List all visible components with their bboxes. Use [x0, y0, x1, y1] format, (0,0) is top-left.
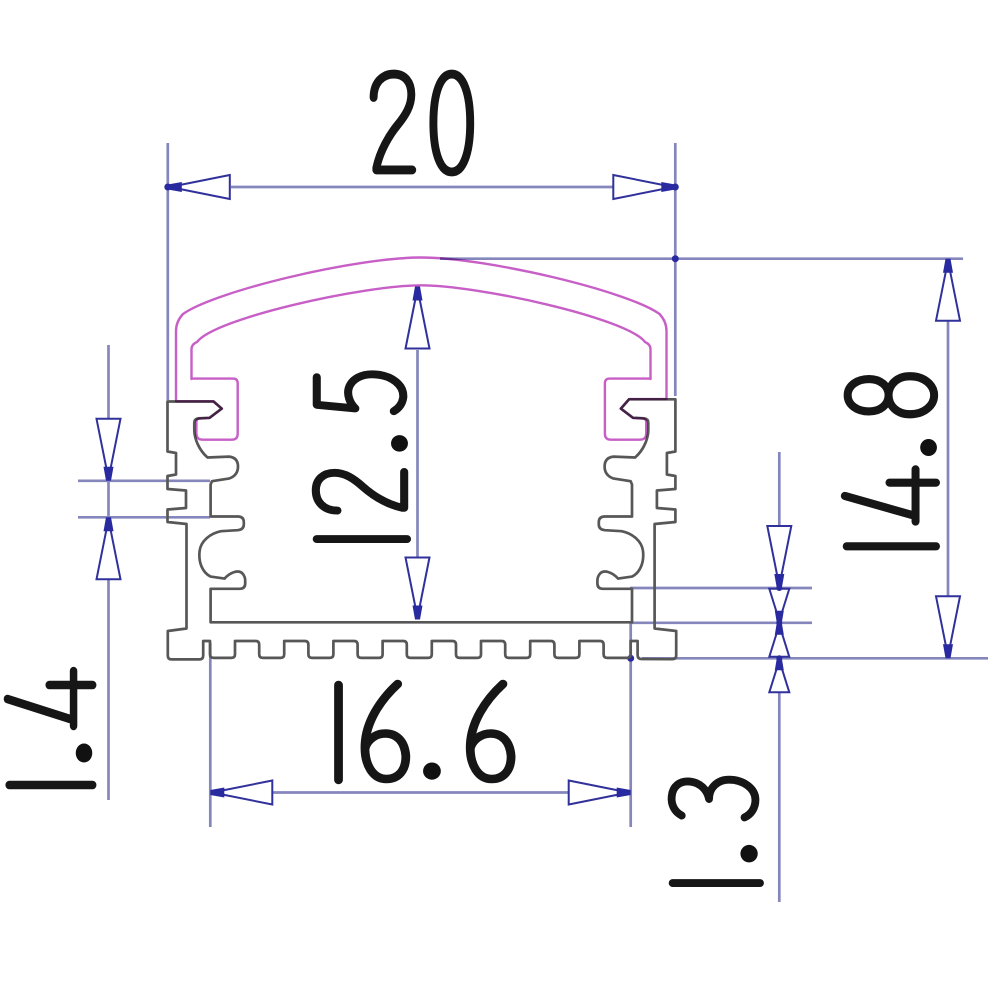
- arrow 12.5 top: [406, 287, 430, 349]
- dimension line 20: [231, 186, 613, 189]
- extension line top of 14.8: [440, 257, 963, 260]
- dimension line 1.3 shaft: [778, 452, 781, 902]
- text 20: [374, 74, 471, 172]
- lens right hook engaging aluminium tooth: [605, 379, 667, 440]
- lens outer arc with side legs: [176, 258, 667, 400]
- extension line bottom of 14.8: [642, 657, 988, 660]
- arrow 1.4 upper (points down to line y=480.8): [97, 419, 121, 481]
- dimension line 16.6: [273, 791, 568, 794]
- arrow 1.4 lower (points up to line y=517.3): [97, 517, 121, 579]
- extension line upper right 1.3: [630, 587, 812, 590]
- arrow 16.6 left: [210, 781, 272, 805]
- arrow 1.3 at y658.3 pointing up: [769, 658, 789, 692]
- arrow 20 right: [613, 175, 675, 199]
- arrow 1.3 at y622.8 pointing down (body above): [769, 623, 789, 657]
- arrow 1.3 at y622.8 pointing up (body below): [769, 589, 789, 623]
- text 16.6: [339, 684, 512, 780]
- text 14.8 (rotated): [845, 376, 937, 546]
- extension line left of dim 20: [166, 143, 169, 400]
- dimension line 12.5 shaft: [416, 350, 419, 560]
- extension line mid right 1.3: [632, 621, 812, 624]
- aluminium extrusion outline: [168, 399, 677, 659]
- extension line right of 16.6: [629, 622, 632, 827]
- extension line right of dim 20: [674, 143, 677, 396]
- lens left hook engaging aluminium tooth: [176, 379, 238, 440]
- text 1.4 (rotated): [7, 671, 92, 785]
- extension line bottom of 1.4: [78, 516, 210, 519]
- arrow 1.3 at y588 pointing down: [767, 526, 791, 588]
- text 1.3 (rotated): [672, 780, 760, 883]
- extension line top of 1.4: [78, 479, 210, 482]
- arrow 20 left: [168, 175, 230, 199]
- lens inner arc with side legs: [192, 285, 651, 379]
- extension line left of 16.6: [209, 643, 212, 827]
- arrow 12.5 bottom: [406, 558, 430, 620]
- dimension line 14.8 shaft: [947, 321, 950, 596]
- arrow 14.8 top: [936, 259, 960, 321]
- arrow 16.6 right: [569, 781, 631, 805]
- dimension line 1.4 shaft: [107, 345, 110, 800]
- arrow 14.8 bottom: [936, 596, 960, 658]
- text 12.5 (rotated): [316, 374, 408, 539]
